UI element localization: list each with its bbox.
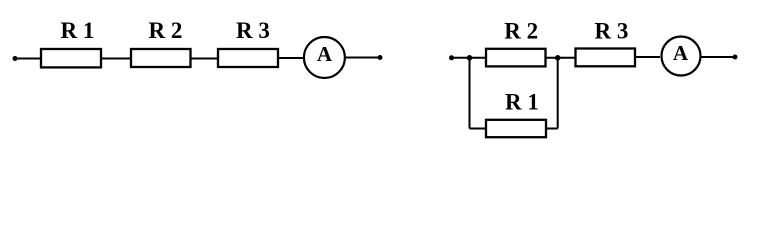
- resistor R1 (bottom branch): [486, 120, 546, 137]
- svg-text:R 2: R 2: [504, 19, 538, 44]
- resistor R1: [41, 49, 101, 67]
- wire: [345, 57, 380, 59]
- right terminal dot: [378, 55, 383, 60]
- ammeter A2: [662, 37, 701, 76]
- wire: [635, 56, 660, 58]
- svg-text:A: A: [673, 41, 689, 65]
- svg-text:R 3: R 3: [595, 19, 629, 44]
- vertical wire right branch: [557, 58, 559, 129]
- wire: [452, 57, 487, 59]
- wire: [546, 57, 576, 59]
- vertical wire left branch: [469, 58, 471, 129]
- left terminal dot: [13, 56, 18, 61]
- svg-text:A: A: [317, 42, 333, 66]
- resistor R3: [218, 49, 278, 67]
- junction node left: [467, 55, 473, 61]
- wire: [700, 56, 735, 58]
- svg-text:R 3: R 3: [236, 18, 270, 43]
- left terminal dot: [449, 55, 454, 60]
- junction node right: [555, 55, 561, 61]
- resistor R2: [131, 49, 191, 67]
- bottom wire: [470, 128, 558, 130]
- wire: [278, 57, 304, 59]
- resistor R3: [576, 49, 636, 67]
- svg-text:R 2: R 2: [149, 18, 183, 43]
- svg-text:R 1: R 1: [505, 89, 539, 114]
- resistor R2 (top branch): [486, 49, 546, 67]
- svg-text:R 1: R 1: [61, 18, 95, 43]
- wire: [15, 58, 41, 60]
- ammeter A1: [304, 37, 345, 78]
- wire: [191, 58, 219, 60]
- right terminal dot: [733, 55, 738, 60]
- wire: [102, 58, 131, 60]
